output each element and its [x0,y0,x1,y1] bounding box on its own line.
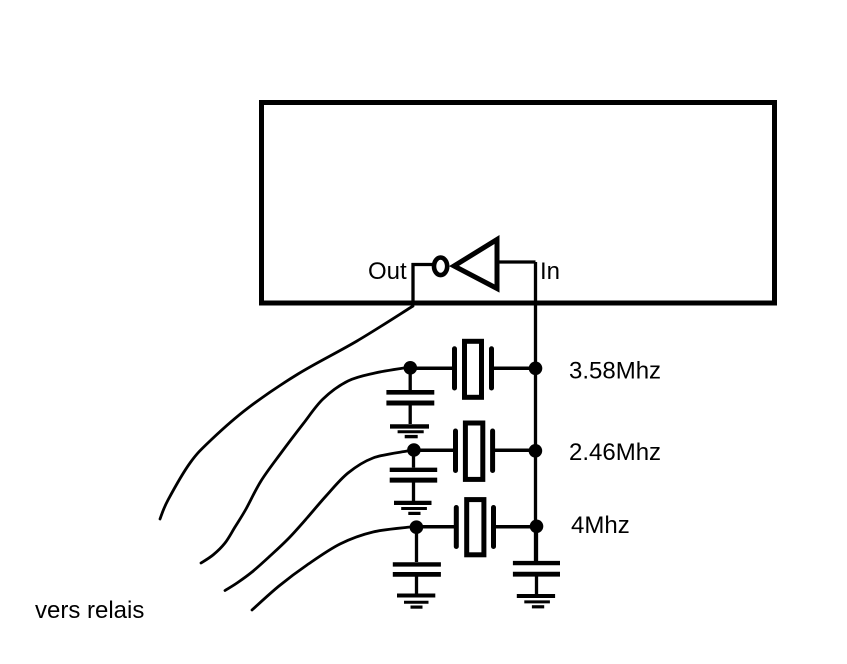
crystal X1 3.58Mhz [455,341,492,397]
wire In vertical bus [534,262,537,561]
capacitor C3 [393,532,441,594]
wire node1 to crystal X1 [410,367,452,371]
node 2 left [407,443,421,457]
svg-text:4Mhz: 4Mhz [571,512,630,539]
svg-text:In: In [540,258,560,285]
ground G2 [394,503,432,514]
svg-text:vers relais: vers relais [35,597,144,624]
capacitor C4 [513,531,560,595]
capacitor C2 [390,455,438,501]
crystal X3 4Mhz [456,500,493,555]
wire node2 to crystal X2 [414,449,453,453]
wire Out vertical [411,263,414,305]
node 3 left [410,520,424,534]
crystal X2 2.46Mhz [456,423,493,479]
IC box U1 [262,103,775,304]
ground G3 [397,596,435,608]
ground G1 [390,426,429,436]
inverter bubble [434,258,447,276]
wire In horizontal [497,260,536,263]
node 1 right [529,362,543,376]
svg-text:2.46Mhz: 2.46Mhz [569,439,661,466]
ground G4 [517,596,555,607]
wire crystal X3 to bus [496,525,536,529]
wire crystal X2 to bus [495,449,536,453]
node 1 left [404,361,418,375]
svg-text:Out: Out [368,258,407,285]
wire curve from node3 to relais [252,527,410,610]
node 3 right [530,520,544,534]
wire curve from node1 to relais [201,368,404,563]
wire Out horizontal [412,263,434,266]
svg-text:3.58Mhz: 3.58Mhz [569,358,661,385]
wire curve from node2 to relais [225,451,407,591]
wire curve from Out to relais [160,306,413,519]
wire node3 to crystal X3 [416,525,454,529]
node 2 right [529,444,543,458]
op-amp U1 inverter triangle [454,240,497,289]
wire crystal X1 to bus [494,367,536,371]
capacitor C1 [386,372,434,424]
